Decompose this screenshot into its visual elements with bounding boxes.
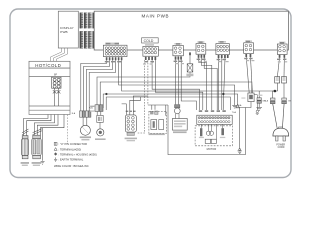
bus Y77 (97, 72, 190, 104)
wires: staircase from CN-A down-left (81, 60, 275, 111)
outer rounded border frame (10, 9, 291, 178)
connector CN-A (TLA 12P) on main pwb (103, 43, 127, 61)
wires: CN-G down to noise filter (277, 58, 284, 77)
bus Y94 (103, 94, 237, 108)
drain pump M2 (172, 105, 187, 133)
relay box K1 dashed (149, 111, 167, 135)
power plug P1 (273, 127, 289, 141)
thermistor TH2 column (90, 106, 105, 140)
connector CN-C (TLD) on main pwb (173, 43, 183, 60)
pressure switch PS1 (80, 117, 91, 140)
wires unit bottom to valves L-routes with slash marks (22, 115, 64, 136)
wires: CN-F down to lid switch (246, 57, 252, 93)
svg-text:MOTOR: MOTOR (207, 147, 217, 151)
motor M1 dashed box (195, 124, 232, 151)
connector pair CN-P1 (4 cells) (72, 111, 91, 117)
wire tap to earth terminal E5 (254, 95, 259, 115)
earth terminal E3 (238, 149, 242, 154)
wires from CN-HC down inside unit with twist marks (53, 88, 61, 106)
junction node J1 (274, 90, 277, 93)
main pwb U1 (94, 11, 288, 50)
wire switch to chassis earth (240, 102, 251, 149)
svg-text:WIRE COLOR : BK/GE/L/NC: WIRE COLOR : BK/GE/L/NC (54, 164, 89, 168)
wires to plug (273, 104, 284, 129)
legend symbol triangle (54, 148, 57, 151)
connector CN-B (COLD 6P) on main pwb (142, 38, 159, 60)
connector CN-D on main pwb (196, 41, 206, 58)
wire CN-A pin5 to bus Y85 (119, 60, 235, 102)
svg-text:6P: 6P (54, 74, 57, 77)
inlet connector CN-L (265, 98, 275, 104)
hot/cold unit body (29, 68, 70, 114)
wires noise filter to inlet connectors (273, 83, 284, 98)
svg-text:: TERMINAL(#250): : TERMINAL(#250) (58, 147, 81, 151)
terminal strip TLA motor (197, 110, 237, 124)
wires: CN-D staircase right (199, 58, 218, 110)
connector pair CN-P2 (pressure switch feed) (89, 105, 103, 112)
wires: CN-B pins 3,4 to motor strip (152, 60, 203, 110)
earth chain E4 left of power (256, 98, 266, 110)
svg-text:MAIN PWB: MAIN PWB (142, 14, 170, 19)
ribbon cable FFC1 display-to-main upper (80, 13, 95, 29)
wires: CN-B dashed pair down (137, 60, 148, 133)
wires: CN-C down (176, 60, 197, 110)
svg-text:POWER: POWER (276, 144, 285, 146)
wires: display pwb to hot/cold (51, 48, 68, 61)
inlet connector CN-N (282, 98, 292, 104)
connector CN-HC 6P on hot/cold unit (52, 74, 61, 89)
svg-text:COLD: COLD (144, 39, 154, 43)
ribbon cable FFC2 display-to-main lower (80, 31, 95, 48)
wire CN-A pin6 to bus Y91 junction (122, 60, 275, 91)
wires: CN-E down to strip (219, 58, 225, 110)
svg-text:TLA: TLA (232, 111, 237, 114)
svg-text:: EARTH TERMINAL: : EARTH TERMINAL (58, 158, 83, 162)
svg-text:PWB: PWB (60, 30, 67, 34)
connector CN-G (POWER) on main pwb (277, 42, 287, 58)
wire bus Y105 relay feed (148, 105, 168, 116)
wire Y91 branch to earth chain (258, 91, 260, 98)
svg-text:: TERMINAL+ HOUSING (#250): : TERMINAL+ HOUSING (#250) (58, 152, 97, 156)
wires into CN-J from buses (122, 96, 148, 115)
legend symbol earth (54, 157, 57, 161)
tiny wire labels under connectors (105, 58, 287, 63)
legend symbol square (54, 142, 57, 145)
display pwb U2 (58, 11, 78, 48)
earth terminals E1 E2 near strip (232, 103, 239, 108)
junction node J3 (222, 93, 224, 95)
connector CN-F on main pwb (244, 40, 254, 57)
svg-text:: "U" PIN CONNECTOR: : "U" PIN CONNECTOR (58, 142, 87, 146)
dashed boundary below unit (67, 115, 69, 145)
bus Y82 (100, 82, 252, 105)
thermal cutout TH1 with X body (186, 52, 193, 76)
junction connector CN-J 8P (122, 96, 148, 141)
hot/cold unit title box (29, 61, 70, 68)
noise filter capacitors C1 C2 (275, 77, 287, 83)
legend (54, 142, 97, 168)
connector CN-E (TLB 8P) on main pwb (216, 41, 229, 58)
svg-text:HOT/COLD: HOT/COLD (35, 63, 61, 68)
lid switch S1 (168, 93, 262, 155)
water valve V1 (hot) (21, 136, 29, 166)
tiny reference labels above connectors (106, 41, 284, 45)
water valve V2 (cold, double) (32, 135, 42, 166)
bus wires middle (97, 72, 259, 110)
svg-text:CORD: CORD (278, 147, 285, 149)
junction node J2 (105, 93, 107, 95)
bus Y97 (106, 97, 230, 110)
wire valve earth branch (41, 128, 45, 165)
legend symbol diamond (54, 152, 57, 155)
wire chassis run along tub bottom (168, 105, 245, 155)
